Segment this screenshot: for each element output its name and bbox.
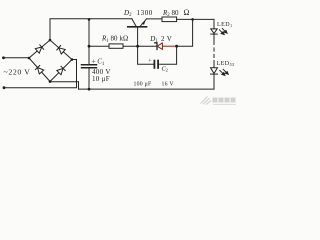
svg-text:100 μF16 V: 100 μF16 V <box>134 81 175 87</box>
svg-text:D12V: D12V <box>149 35 172 44</box>
svg-text:LED1: LED1 <box>217 22 233 28</box>
svg-text:D21300: D21300 <box>123 9 153 18</box>
svg-text:R180kΩ: R180kΩ <box>101 35 128 44</box>
svg-text:LED55: LED55 <box>217 61 236 67</box>
svg-text:~220 V: ~220 V <box>4 67 31 76</box>
svg-text:10 μF: 10 μF <box>92 75 110 83</box>
svg-text:C2: C2 <box>162 65 168 72</box>
svg-text:+ C1: + C1 <box>92 58 105 67</box>
svg-text:R280Ω: R280Ω <box>162 8 190 18</box>
svg-text:+: + <box>148 58 151 64</box>
